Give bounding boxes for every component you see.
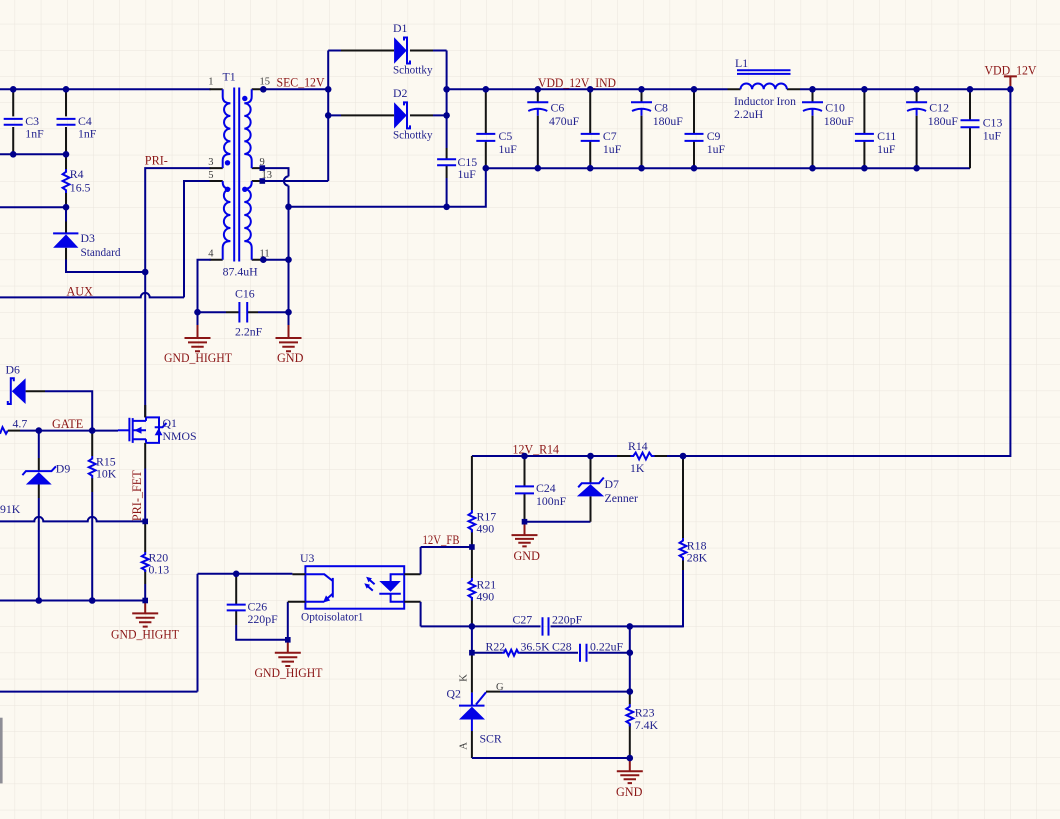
svg-text:GND: GND — [514, 549, 541, 563]
wire pin9 right then down with hop over pin13 wire — [262, 168, 288, 176]
svg-text:1nF: 1nF — [25, 126, 44, 140]
svg-text:GND_HIGHT: GND_HIGHT — [111, 628, 180, 642]
svg-text:Zenner: Zenner — [605, 491, 638, 505]
svg-text:R22: R22 — [486, 639, 506, 653]
resistor R18 — [680, 456, 708, 570]
svg-text:GND_HIGHT: GND_HIGHT — [255, 666, 324, 680]
svg-text:R4: R4 — [70, 167, 84, 181]
capacitor C24 — [515, 456, 567, 522]
svg-text:15: 15 — [260, 76, 271, 87]
svg-text:91K: 91K — [0, 502, 21, 516]
svg-text:220pF: 220pF — [248, 612, 279, 626]
svg-text:180uF: 180uF — [653, 114, 684, 128]
capacitor C4 — [57, 89, 97, 154]
wire hop pin9 over pin13 — [284, 176, 289, 185]
svg-text:470uF: 470uF — [549, 114, 580, 128]
wire Q1 source down to PRI-FET junction — [144, 469, 146, 522]
ground GND under C24 — [512, 522, 541, 563]
wire C26 row to U3 — [198, 573, 293, 575]
svg-text:VDD_12V: VDD_12V — [985, 64, 1037, 78]
resistor R17 — [469, 456, 497, 547]
svg-text:PRI-: PRI- — [145, 154, 168, 168]
resistor R15 — [89, 431, 117, 492]
gray sliver object at left edge — [0, 718, 3, 784]
ground GND_HIGHT under C16 left — [164, 312, 233, 365]
capacitor C7 — [581, 92, 622, 168]
svg-text:490: 490 — [477, 521, 495, 535]
svg-text:2.2uH: 2.2uH — [734, 107, 764, 121]
svg-text:C13: C13 — [983, 115, 1003, 129]
svg-text:5: 5 — [208, 170, 213, 181]
diode D1 — [328, 21, 446, 77]
T1 secondary top winding — [244, 89, 251, 168]
capacitor C9 — [685, 92, 726, 168]
wire pin4 to riser — [198, 260, 211, 313]
svg-text:1uF: 1uF — [499, 142, 518, 156]
wire cathode column D1-D2 down — [446, 51, 448, 149]
svg-text:R14: R14 — [628, 439, 648, 453]
svg-text:1uF: 1uF — [983, 128, 1002, 142]
capacitor C16 — [198, 287, 289, 339]
wire R21 junction down to SCR — [471, 626, 473, 652]
svg-text:SCR: SCR — [480, 731, 502, 745]
svg-text:C12: C12 — [929, 101, 949, 115]
svg-text:D7: D7 — [605, 477, 620, 491]
svg-text:C8: C8 — [654, 101, 668, 115]
svg-text:GATE: GATE — [52, 417, 83, 431]
svg-text:100nF: 100nF — [536, 494, 567, 508]
svg-text:1uF: 1uF — [707, 142, 726, 156]
svg-text:C6: C6 — [551, 101, 565, 115]
wire D9 down across row to bottom row — [38, 498, 40, 601]
wire 12V_FB row — [421, 546, 472, 548]
wire R23/C27 vertical column — [629, 626, 631, 691]
svg-text:K: K — [459, 674, 470, 682]
svg-text:GND: GND — [277, 351, 304, 365]
diode D3 — [53, 207, 120, 259]
power port VDD_12V — [985, 64, 1037, 90]
svg-text:C7: C7 — [603, 129, 617, 143]
wire cap bank bottom rail — [486, 167, 970, 169]
svg-text:12V_FB: 12V_FB — [423, 533, 460, 547]
wire R14 to R18 column — [667, 455, 683, 457]
wire U3 bottom right riser to C27 row — [420, 602, 422, 627]
wire pin9 column down to C16 — [288, 186, 290, 325]
ground GND bottom — [616, 758, 643, 799]
svg-text:C28: C28 — [552, 639, 572, 653]
net AUX wire with hop over PRI- vertical — [0, 293, 184, 298]
svg-text:12V_R14: 12V_R14 — [513, 443, 560, 457]
svg-text:4.7: 4.7 — [13, 416, 28, 430]
svg-text:1uF: 1uF — [603, 142, 622, 156]
svg-text:A: A — [459, 742, 470, 750]
capacitor C13 — [961, 92, 1003, 168]
svg-text:Optoisolator1: Optoisolator1 — [301, 609, 364, 623]
resistor R23 — [626, 692, 658, 758]
wire R22 row — [472, 652, 630, 654]
svg-text:2.2nF: 2.2nF — [235, 325, 263, 339]
wire PRI- to pin3 and vertical down to Q1 drain — [145, 168, 210, 417]
capacitor C27 — [513, 613, 583, 636]
svg-text:0.22uF: 0.22uF — [590, 639, 624, 653]
svg-text:PRI-_FET: PRI-_FET — [130, 470, 144, 521]
svg-text:Q2: Q2 — [447, 686, 462, 700]
wire 12V_R14 row — [472, 455, 617, 457]
svg-text:1: 1 — [208, 76, 213, 87]
svg-text:U3: U3 — [300, 551, 315, 565]
wire D3 bottom to PRI- vertical — [66, 260, 145, 273]
svg-text:16.5: 16.5 — [70, 181, 91, 195]
svg-text:C5: C5 — [499, 129, 513, 143]
wire R20 bottom — [144, 584, 146, 601]
svg-text:D1: D1 — [393, 21, 408, 35]
svg-text:87.4uH: 87.4uH — [223, 264, 259, 278]
T1 core — [234, 88, 239, 262]
wire R18 down to C27 row — [630, 570, 683, 626]
svg-text:C11: C11 — [877, 129, 896, 143]
wire right edge vertical — [683, 89, 1010, 456]
svg-text:C27: C27 — [513, 613, 533, 627]
svg-text:D2: D2 — [393, 86, 408, 100]
svg-text:T1: T1 — [223, 70, 236, 84]
resistor 4.7 stub at left edge — [0, 416, 39, 434]
T1 polarity dots — [242, 96, 247, 101]
wire pin11 to column — [265, 259, 289, 261]
resistor R20 — [142, 521, 169, 584]
svg-text:3: 3 — [208, 157, 213, 168]
T1 pin stubs right — [252, 89, 265, 259]
diode D2 — [328, 86, 446, 142]
svg-text:Schottky: Schottky — [393, 63, 433, 77]
wire C26 bottom to GND_HIGHT junction — [236, 625, 288, 640]
T1 primary bottom winding — [223, 181, 231, 260]
svg-text:1uF: 1uF — [877, 142, 896, 156]
wire left rail y207 — [0, 206, 66, 208]
wire bottom-left row — [0, 691, 198, 693]
capacitor C12 polarized — [906, 92, 958, 168]
svg-text:220pF: 220pF — [552, 613, 583, 627]
resistor R4 — [63, 154, 91, 207]
svg-text:L1: L1 — [735, 56, 748, 70]
capacitor C28 — [552, 639, 624, 662]
wire R15 down to bottom row — [91, 492, 93, 601]
svg-text:C24: C24 — [536, 481, 556, 495]
svg-text:28K: 28K — [687, 550, 708, 564]
wire top rail after L1 — [800, 88, 1010, 90]
svg-text:10K: 10K — [96, 466, 117, 480]
svg-text:NMOS: NMOS — [163, 429, 197, 443]
wire C3/C4 bottom rail — [0, 153, 66, 155]
wire bottom row to R20 — [0, 600, 145, 602]
svg-text:VDD_12V_IND: VDD_12V_IND — [538, 76, 616, 90]
wire top rail to L1 — [447, 88, 728, 90]
capacitor C5 — [476, 92, 517, 168]
wire pin15 to D1/D2 column — [265, 88, 328, 90]
ground GND under C16 right — [276, 325, 304, 365]
wire GATE row — [39, 430, 118, 432]
resistor R14 — [617, 439, 667, 475]
svg-text:0.13: 0.13 — [149, 562, 170, 576]
capacitor C26 — [227, 574, 278, 626]
svg-text:7.4K: 7.4K — [635, 718, 659, 732]
wire row y521 with hops over D9 and R15 — [0, 517, 145, 522]
T1 primary top winding — [223, 89, 231, 168]
T1 secondary bottom winding — [244, 181, 251, 260]
svg-text:1uF: 1uF — [458, 167, 477, 181]
wire C24 bottom to D7 — [525, 521, 591, 523]
T1 pin stubs left — [210, 89, 223, 259]
svg-text:D6: D6 — [6, 363, 21, 377]
wire AUX riser to T1 pin5 — [184, 181, 211, 297]
svg-text:180uF: 180uF — [824, 114, 855, 128]
svg-text:1nF: 1nF — [78, 126, 97, 140]
transistor Q1 NMOS — [118, 405, 197, 469]
capacitor C8 polarized — [631, 92, 683, 168]
capacitor C10 polarized — [802, 92, 854, 168]
svg-text:C16: C16 — [235, 287, 255, 301]
svg-text:C9: C9 — [707, 129, 721, 143]
diode D7 zener — [577, 456, 638, 522]
svg-text:GND: GND — [616, 785, 643, 799]
ground GND_HIGHT under U3 — [255, 640, 324, 680]
diode D9 zener — [22, 431, 70, 498]
wire C15 bottom to rail2 — [446, 178, 448, 207]
svg-text:D9: D9 — [56, 462, 71, 476]
wire secondary return rail — [289, 168, 486, 207]
svg-text:Inductor Iron: Inductor Iron — [734, 94, 796, 108]
svg-text:Standard: Standard — [81, 245, 121, 259]
svg-text:4: 4 — [208, 249, 214, 260]
capacitor C15 — [437, 148, 477, 181]
wire G row — [486, 691, 500, 693]
capacitor C3 — [4, 89, 44, 154]
wire riser to C26 row — [197, 574, 199, 692]
svg-text:Schottky: Schottky — [393, 128, 433, 142]
diode D6 — [6, 363, 93, 431]
svg-text:SEC_12V: SEC_12V — [277, 75, 325, 89]
wire pin13 to anode column — [262, 180, 328, 182]
wire C27 row — [421, 625, 683, 627]
svg-text:1K: 1K — [630, 461, 645, 475]
svg-text:490: 490 — [477, 589, 495, 603]
wire SCR anode row — [472, 757, 630, 759]
svg-text:GND_HIGHT: GND_HIGHT — [164, 351, 233, 365]
inductor L1 — [728, 56, 801, 121]
optocoupler U3 — [288, 551, 421, 624]
capacitor C11 — [855, 92, 897, 168]
wire D1/D2 anode column — [327, 51, 329, 182]
resistor R21 — [469, 547, 497, 626]
wire top rail left to T1 pin1 — [0, 88, 211, 90]
svg-text:D3: D3 — [81, 231, 96, 245]
svg-text:36.5K: 36.5K — [521, 639, 551, 653]
wire U3 emitter pin down — [287, 602, 289, 640]
svg-text:C10: C10 — [825, 101, 845, 115]
svg-text:AUX: AUX — [67, 284, 94, 298]
svg-text:Q1: Q1 — [163, 416, 178, 430]
wire U3 top right riser to 12V_FB — [420, 547, 422, 574]
thyristor Q2 SCR — [447, 653, 505, 758]
svg-text:180uF: 180uF — [928, 114, 959, 128]
capacitor C6 polarized — [527, 92, 579, 168]
resistor R22 — [486, 639, 551, 655]
ground GND_HIGHT under R20 — [111, 601, 180, 642]
